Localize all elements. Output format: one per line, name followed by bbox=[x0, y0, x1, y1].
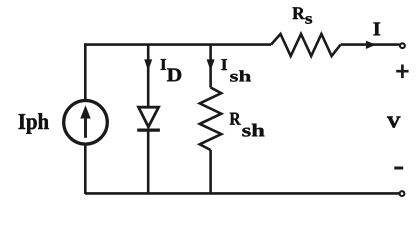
plus sign bbox=[396, 65, 408, 79]
label V voltage bbox=[387, 117, 400, 128]
label ID - D subscript bbox=[167, 69, 181, 82]
current source arrow head bbox=[80, 105, 90, 118]
wire top bus bbox=[85, 43, 271, 46]
current source arrow shaft bbox=[84, 117, 87, 138]
resistor Rsh bbox=[200, 88, 222, 151]
wire Rsh branch lower bbox=[209, 150, 212, 194]
label I output current bbox=[373, 23, 380, 36]
wire Rs to terminal bbox=[341, 43, 400, 46]
label ID - I bbox=[161, 59, 166, 70]
label Rs - s subscript bbox=[305, 16, 312, 24]
label Rs - R bbox=[293, 7, 305, 19]
arrow ID bbox=[144, 59, 152, 71]
current source Iph circle bbox=[64, 101, 108, 145]
wire Rsh branch upper bbox=[209, 45, 212, 88]
diode D triangle bbox=[139, 107, 159, 127]
minus sign bbox=[394, 167, 403, 170]
resistor Rs bbox=[271, 34, 341, 56]
label Ish - sh subscript bbox=[230, 70, 251, 81]
wire diode branch lower bbox=[147, 130, 150, 194]
arrow Ish bbox=[207, 59, 215, 71]
wire bottom bus bbox=[85, 192, 399, 195]
wire left vertical lower bbox=[84, 145, 87, 195]
wire left vertical upper bbox=[84, 43, 87, 100]
wire diode branch upper bbox=[147, 45, 150, 107]
label Iph bbox=[19, 113, 49, 134]
label Ish - I bbox=[221, 59, 227, 70]
label Rsh - R bbox=[230, 113, 241, 125]
terminal top bbox=[400, 43, 405, 48]
diode D cathode bar bbox=[137, 129, 160, 132]
arrow I output bbox=[366, 41, 376, 49]
terminal bottom bbox=[400, 191, 405, 196]
label Rsh - sh subscript bbox=[242, 124, 264, 137]
